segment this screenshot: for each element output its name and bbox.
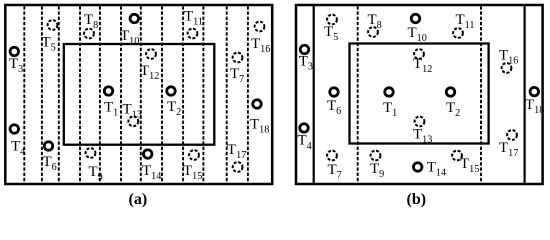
thermocouple T4 marker (a), front face [10,125,18,134]
thermocouple T10 marker (b), front face [411,14,420,23]
dashed groove line 9 (a) [182,6,184,183]
thermocouple T9 marker (a), back face dashed [86,148,96,158]
dashed groove line 2 (a) [41,6,43,183]
thermocouple T6 marker (b), front face [330,88,339,97]
thermocouple T4 marker (b), front face [300,124,309,133]
thermocouple T3 marker (b), front face [300,45,309,54]
thermocouple T18 marker (a), front face [253,100,262,109]
thermocouple T17 marker (b), back face dashed [507,130,517,140]
dashed groove line 5 (a) [99,6,101,183]
dashed groove line 3 (a) [58,6,60,183]
thermocouple T6 marker (a), front face [44,142,53,151]
svg-text:(a): (a) [129,191,148,208]
heated zone inner rectangle (a) [64,44,215,145]
thermocouple T10 marker (a), front face [130,14,139,23]
thermocouple T2 marker (a), front face [167,87,176,96]
thermocouple T12 marker (a), back face dashed [146,49,156,59]
dashed groove line 10 (a) [202,6,204,183]
thermocouple T14 marker (a), front face [143,150,152,159]
thermocouple T12 marker (b), back face dashed [414,49,424,59]
thermocouple T16 marker (a), back face dashed [255,22,265,32]
right dashed partition line (b) [480,6,482,183]
thermocouple T13 marker (b), back face dashed [415,117,425,127]
heated zone inner rectangle (b) [350,44,489,144]
thermocouple T16 marker (b), back face dashed [502,63,512,73]
thermocouple T8 marker (a), back face dashed [84,29,94,39]
thermocouple T11 marker (b), back face dashed [453,28,463,38]
dashed groove line 7 (a) [140,6,142,183]
thermocouple T15 marker (a), back face dashed [189,150,199,160]
dashed groove line 12 (a) [247,6,249,183]
right partition wall line (b) [523,6,525,184]
dashed groove line 1 (a) [23,6,25,183]
thermocouple T11 marker (a), back face dashed [188,29,198,39]
panel (b) outer boundary rectangle [296,5,543,184]
thermocouple T5 marker (a), back face dashed [48,20,58,30]
thermocouple T7 marker (a), back face dashed [233,53,243,63]
dashed groove line 11 (a) [226,6,228,183]
dashed groove line 4 (a) [79,6,81,183]
svg-text:(b): (b) [407,191,427,208]
thermocouple T5 marker (b), back face dashed [327,15,337,25]
thermocouple T8 marker (b), back face dashed [368,27,378,37]
thermocouple T9 marker (b), back face dashed [371,151,381,161]
thermocouple T2 marker (b), front face [446,88,455,97]
left partition wall line (b) [313,6,315,184]
panel (a) outer boundary rectangle [5,5,272,184]
thermocouple T1 marker (b), front face [385,88,394,97]
thermocouple T1 marker (a), front face [104,87,113,96]
thermocouple T3 marker (a), front face [10,47,18,56]
left dashed partition line (b) [357,6,359,183]
thermocouple T18 marker (b), front face [530,87,539,96]
thermocouple T15 marker (b), back face dashed [452,151,462,161]
thermocouple T13 marker (a), back face dashed [128,116,138,126]
dashed groove line 6 (a) [120,6,122,183]
thermocouple T17 marker (a), back face dashed [233,162,243,172]
thermocouple T7 marker (b), back face dashed [327,151,337,161]
thermocouple T14 marker (b), front face [413,163,422,172]
dashed groove line 8 (a) [161,6,163,183]
